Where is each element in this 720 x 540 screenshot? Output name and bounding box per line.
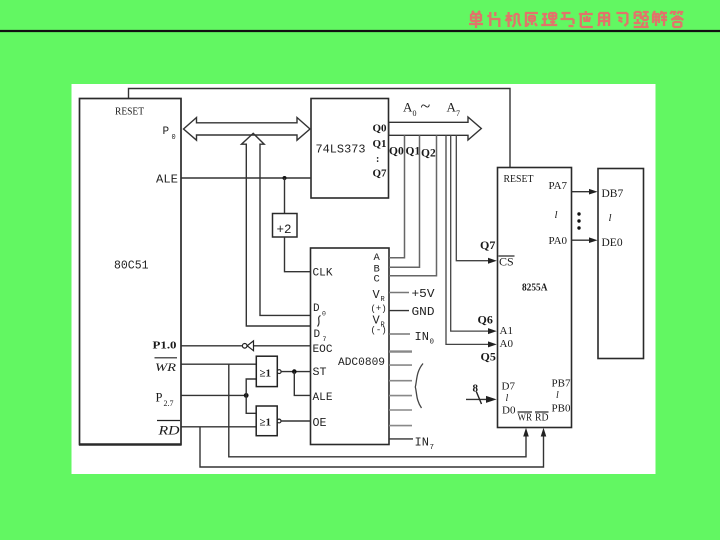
svg-text:Q0: Q0: [373, 123, 388, 135]
svg-text:+2: +2: [277, 223, 292, 237]
label Q7 (cs wire): [480, 238, 495, 252]
label PB0: [552, 403, 571, 415]
svg-text:C: C: [374, 274, 380, 286]
label D0: [502, 405, 516, 417]
svg-text:WR: WR: [155, 360, 177, 374]
svg-text:IN: IN: [415, 330, 429, 344]
schematic background panel: [72, 84, 656, 474]
wire RD branch down to bottom bus: [200, 427, 546, 467]
data bus up-arrow ADC to P0 bus: [242, 133, 312, 326]
svg-text:ALE: ALE: [156, 173, 178, 187]
label Q2 (below arrow): [421, 148, 436, 160]
label RD (8255, overline): [535, 412, 549, 424]
display latch box DB: [598, 169, 644, 359]
label +5V: [412, 287, 436, 301]
svg-text:≥1: ≥1: [260, 417, 272, 429]
label VR(-): [371, 314, 387, 336]
svg-text:PB7: PB7: [552, 378, 571, 390]
svg-text:CLK: CLK: [313, 268, 333, 280]
label Q5: [481, 350, 496, 364]
label D7 (adc): [314, 329, 327, 343]
divider (divide-by-2) box: [273, 214, 298, 238]
label WR (8255, overline): [518, 412, 533, 424]
pin wire IN7: [389, 438, 413, 440]
svg-text:2.7: 2.7: [164, 399, 174, 408]
svg-text:8: 8: [473, 383, 479, 395]
svg-text:PA0: PA0: [549, 235, 568, 247]
svg-text:Q1: Q1: [406, 146, 421, 158]
svg-text:V: V: [373, 288, 381, 302]
wire Q7 to 8255 CS: [456, 135, 497, 263]
label GND: [412, 305, 435, 319]
squiggle D0-D7: [318, 316, 321, 327]
label P1.0: [153, 341, 177, 352]
svg-text:RESET: RESET: [115, 106, 144, 118]
svg-text:D0: D0: [502, 405, 516, 417]
svg-text:0: 0: [172, 134, 176, 142]
svg-text:(-): (-): [371, 326, 387, 336]
wire P2.7 branch to gate2: [246, 395, 256, 413]
svg-text:l: l: [556, 390, 559, 401]
svg-text:≥1: ≥1: [260, 368, 272, 380]
svg-text:Q0: Q0: [389, 146, 404, 158]
svg-text:ALE: ALE: [313, 392, 333, 404]
wire PA7 to DB7: [572, 189, 598, 195]
title rule line: [0, 30, 720, 32]
pin wire GND: [389, 310, 409, 312]
wire ALE junction down to divider: [284, 178, 286, 214]
svg-text:+5V: +5V: [412, 287, 436, 301]
svg-text:Q2: Q2: [421, 148, 436, 160]
label 8 (bus width): [473, 383, 479, 395]
svg-text:Q6: Q6: [478, 313, 493, 327]
wire gate2 out to OE: [281, 420, 310, 422]
label VR(+): [371, 288, 387, 314]
label EOC: [313, 344, 333, 356]
svg-text:RD: RD: [535, 413, 549, 424]
label PA7: [549, 180, 568, 192]
svg-text:0: 0: [322, 311, 326, 318]
data bus 8 arrow to 8255 D7-D0: [466, 392, 497, 405]
svg-text:RD: RD: [157, 424, 179, 438]
svg-text:P: P: [156, 391, 163, 405]
svg-text::: :: [376, 154, 379, 165]
or-gate G1 (WR+P2.7 to ST/ALE): [256, 356, 281, 386]
address out arrow Q0-Q7: [389, 117, 482, 140]
junction dot P2.7: [244, 393, 249, 398]
label DB7: [602, 188, 624, 200]
svg-text:A1: A1: [500, 325, 513, 337]
or-gate G2 (P2.7+RD to OE): [256, 406, 281, 436]
squiggle PB: [556, 390, 559, 401]
svg-text:DB7: DB7: [602, 188, 624, 200]
label OE: [313, 417, 327, 430]
wire: reset line from 80C51 top to 8255A RESET: [129, 89, 511, 168]
svg-text:OE: OE: [313, 417, 327, 430]
label 80C51: [114, 260, 149, 273]
label A0: [500, 338, 514, 350]
svg-text:Q7: Q7: [480, 238, 495, 252]
label D7: [502, 381, 516, 393]
svg-text:8255A: 8255A: [522, 283, 548, 294]
label Q0 (below arrow): [389, 146, 404, 158]
label A1: [500, 325, 513, 337]
label IN7: [415, 436, 435, 453]
label ST: [313, 367, 327, 379]
squiggle PA: [555, 209, 558, 221]
label Q7 (373 pin): [373, 168, 388, 180]
svg-text:7: 7: [430, 444, 435, 452]
label Q0 (373 pin): [373, 123, 388, 135]
wire WR branch down to bottom bus: [229, 364, 529, 457]
label PA0: [549, 235, 568, 247]
svg-text:GND: GND: [412, 305, 435, 319]
svg-text:IN: IN: [415, 436, 429, 450]
svg-text:PB0: PB0: [552, 403, 571, 415]
label CLK: [313, 268, 333, 280]
adc IN1..IN6 pin stubs: [389, 352, 412, 426]
svg-text:D: D: [314, 329, 321, 341]
latch 74LS373 box: [311, 99, 389, 199]
wire inverter to P1.0: [182, 345, 243, 347]
wire divider output to ADC CLK: [285, 237, 312, 272]
label Q6: [478, 313, 493, 327]
label PB7: [552, 378, 571, 390]
label A0 ~ A7: [403, 96, 460, 118]
ppi 8255A box: [498, 168, 572, 428]
wire EOC to inverter: [254, 345, 311, 347]
svg-text:EOC: EOC: [313, 344, 333, 356]
svg-text:0: 0: [430, 339, 435, 347]
svg-text:P1.0: P1.0: [153, 341, 177, 352]
svg-text:80C51: 80C51: [114, 260, 149, 273]
svg-text:l: l: [555, 209, 558, 221]
slide title 单片机原理与应用习题解答 (stroke approximation): [469, 11, 683, 28]
mcu 80C51 box: [79, 99, 182, 445]
svg-text:Q1: Q1: [373, 138, 387, 150]
svg-text:~: ~: [421, 96, 431, 116]
svg-text:A0: A0: [500, 338, 514, 350]
svg-text:P: P: [163, 126, 170, 138]
wire ALE to 74LS373: [182, 177, 312, 179]
label colon dots (373): [376, 154, 379, 165]
svg-text:7: 7: [323, 336, 327, 343]
adc ADC0809 box: [311, 248, 390, 445]
label 8255A: [522, 283, 548, 294]
wire ST junction to ALE (adc): [294, 372, 310, 396]
wire gate1 out to ST: [281, 371, 310, 373]
svg-text:D7: D7: [502, 381, 516, 393]
wire Q0 to ADC pin A: [389, 135, 405, 257]
svg-text:PA7: PA7: [549, 180, 568, 192]
inverter (EOC to P1.0): [242, 341, 253, 351]
svg-text:Q7: Q7: [373, 168, 388, 180]
label ADC0809: [338, 357, 385, 369]
label ALE (80C51): [156, 173, 178, 187]
svg-text:RESET: RESET: [504, 173, 534, 185]
svg-text:0: 0: [413, 109, 417, 118]
label ALE (adc): [313, 392, 333, 404]
label P0: [163, 126, 176, 142]
label WR (80C51, overline): [155, 358, 178, 374]
label B (adc pin): [374, 264, 380, 276]
bus double arrow P0 to 74LS373: [184, 118, 311, 141]
wire Q5 to 8255 A0: [446, 135, 497, 347]
junction dot ST wire: [292, 369, 297, 374]
svg-text:D: D: [313, 303, 320, 315]
wire PA0 to DE0: [572, 237, 598, 243]
svg-text:A: A: [447, 100, 457, 115]
label RD (80C51, overline): [157, 421, 180, 438]
svg-text:l: l: [609, 212, 612, 224]
label C (adc pin): [374, 274, 380, 286]
wire P2.7 branch to gate1: [246, 379, 256, 395]
svg-text:ADC0809: ADC0809: [338, 357, 385, 369]
label D0 (adc): [313, 303, 326, 318]
pin wire IN0: [389, 333, 410, 335]
label P2.7: [156, 391, 174, 409]
wire Q1 to ADC pin B: [389, 135, 420, 267]
label 74LS373: [316, 143, 366, 157]
label RESET (8255): [504, 173, 534, 185]
squiggle DB: [609, 212, 612, 224]
junction dot on ALE wire: [283, 176, 287, 180]
svg-text:(+): (+): [371, 304, 387, 314]
wire P2.7 from mcu: [182, 394, 247, 396]
svg-text:l: l: [506, 393, 509, 404]
vertical dots between PA wires: [577, 212, 580, 229]
wire WR to gate1: [182, 363, 257, 365]
svg-text:DE0: DE0: [602, 237, 623, 249]
svg-text:74LS373: 74LS373: [316, 143, 366, 157]
label Q1 (373 pin): [373, 138, 387, 150]
svg-text:A: A: [374, 252, 381, 264]
label DE0: [602, 237, 623, 249]
wire Q6 to 8255 A1: [451, 135, 497, 334]
svg-text:Q5: Q5: [481, 350, 496, 364]
svg-text:7: 7: [456, 109, 460, 118]
label CS (overline): [499, 255, 515, 269]
label IN0: [415, 330, 435, 347]
wire RD to gate2: [182, 426, 257, 428]
brace squiggle over IN pins: [415, 364, 423, 409]
squiggle D7-D0 (8255): [506, 393, 509, 404]
label Q1 (below arrow): [406, 146, 421, 158]
pin wire +5V: [389, 292, 409, 294]
svg-text:A: A: [403, 100, 413, 115]
label A (adc pin): [374, 252, 381, 264]
label RESET (80C51): [115, 106, 144, 118]
svg-text:ST: ST: [313, 367, 327, 379]
wire Q2 to ADC pin C: [389, 135, 437, 275]
svg-text:WR: WR: [518, 413, 533, 424]
